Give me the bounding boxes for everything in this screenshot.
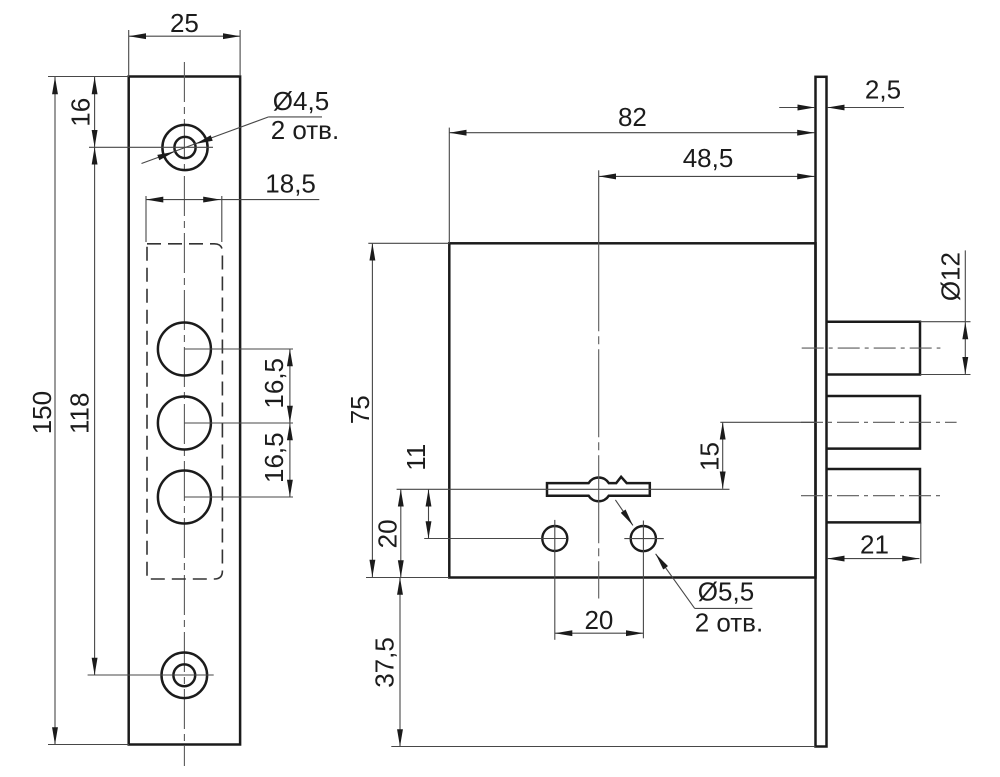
dimension 150 extension bottom (48, 744, 129, 746)
svg-text:Ø4,5: Ø4,5 (273, 86, 329, 116)
dimension 20 bottom line (555, 632, 643, 634)
faceplate bar (side view) (816, 77, 827, 747)
dimension 75 extension bottom (366, 577, 449, 579)
dimension 2,5 left arrow (779, 107, 815, 109)
svg-text:16,5: 16,5 (259, 432, 289, 483)
dimension 37,5 line (399, 578, 401, 747)
leader Ø4,5 arrow lower (157, 152, 174, 161)
dimension 2,5 right arrow (827, 107, 904, 109)
hole 3 center stub (184, 496, 293, 498)
top screw hole Ø4,5 (174, 137, 195, 158)
mounting holes horizontal centerline (424, 538, 567, 540)
bolt 1 centerline (802, 347, 941, 349)
dimension Ø12 line (964, 322, 966, 374)
bottom screw hole Ø4,5 (173, 664, 195, 686)
faceplate vertical centerline (183, 62, 185, 766)
svg-text:Ø5,5: Ø5,5 (698, 577, 754, 607)
dimension Ø12 extension top (920, 321, 971, 323)
deadbolt hole 3 (158, 471, 211, 524)
dimension 21 extension (920, 522, 922, 563)
mounting hole left Ø5,5 (542, 526, 567, 551)
bottom screw hole countersink (162, 653, 208, 699)
mounting hole right Ø5,5 (631, 526, 656, 551)
svg-text:18,5: 18,5 (265, 169, 316, 199)
svg-text:16,5: 16,5 (259, 358, 289, 409)
dimension 150 line (54, 77, 56, 745)
top screw hole countersink (162, 125, 207, 170)
right circle vertical centerline (642, 521, 644, 639)
svg-text:2,5: 2,5 (865, 75, 901, 105)
dimension 15 extension top (720, 421, 815, 423)
dimension Ø12 extension bottom (920, 374, 971, 376)
keyhole vertical centerline upper (598, 170, 600, 243)
dimension 18,5 line (146, 199, 221, 201)
dimension Ø12 overshoot (964, 250, 966, 322)
dimension 25 extension right (239, 30, 241, 76)
svg-text:Ø12: Ø12 (936, 252, 966, 301)
svg-text:2 отв.: 2 отв. (271, 115, 340, 145)
dimension 37,5 extension bottom (391, 746, 815, 748)
dimension 150 extension top (48, 76, 129, 78)
dimension 25 line (129, 35, 240, 37)
hidden lock body (dashed rounded rect) (147, 244, 222, 579)
svg-text:82: 82 (618, 102, 647, 132)
lock body outline (side view) (449, 243, 815, 577)
dimension 16,5 lower line (289, 423, 291, 497)
dimension 75 line (371, 243, 373, 577)
deadbolt hole 1 (158, 323, 211, 376)
svg-text:21: 21 (860, 530, 889, 560)
svg-text:20: 20 (584, 605, 613, 635)
svg-text:2 отв.: 2 отв. (695, 608, 764, 638)
left circle vertical centerline (554, 520, 556, 640)
dimension 75 extension top (368, 242, 449, 244)
keyhole horizontal centerline (397, 488, 730, 490)
dimension 18,5 line tail (221, 199, 320, 201)
dimension 18,5 extension left (145, 196, 147, 242)
leader Ø4,5 arrow upper (195, 135, 212, 144)
bolt 3 (827, 469, 921, 522)
dimension 25 extension left (128, 30, 130, 76)
svg-text:25: 25 (170, 8, 199, 38)
dimension 16 line (94, 77, 96, 147)
dimension 11 line (428, 489, 430, 538)
bolt 1 (827, 322, 921, 375)
top hole horizontal centerline (89, 146, 213, 148)
dimension 16,5 upper line (289, 349, 291, 423)
leader Ø4,5 shelf (269, 116, 322, 118)
svg-text:75: 75 (345, 395, 375, 424)
svg-text:48,5: 48,5 (683, 143, 734, 173)
svg-text:15: 15 (695, 442, 725, 471)
svg-text:118: 118 (64, 393, 94, 434)
svg-text:37,5: 37,5 (370, 637, 400, 688)
faceplate outline (front view) (129, 77, 240, 745)
right circle crosshair horizontal (624, 538, 664, 540)
dimension 20 left line (400, 489, 402, 577)
dimension 15 line (722, 422, 724, 489)
keyhole lever window (547, 477, 650, 502)
bolt 2 (827, 396, 921, 449)
bolt 3 centerline (801, 495, 941, 497)
dimension 18,5 extension right (221, 196, 223, 242)
dimension 82 line (449, 132, 814, 134)
dimension 21 line (827, 558, 919, 560)
leader Ø5,5 lower segment (656, 554, 695, 609)
svg-text:11: 11 (401, 444, 431, 471)
svg-text:16: 16 (65, 98, 95, 127)
leader Ø4,5 diagonal (142, 117, 269, 164)
leader Ø5,5 upper segment (615, 500, 633, 526)
hole 2 center stub (184, 422, 293, 424)
deadbolt hole 2 (158, 397, 211, 450)
keyhole vertical centerline body (598, 243, 600, 598)
dimension 118 line (94, 147, 96, 675)
svg-text:150: 150 (27, 391, 57, 434)
bolt 2 centerline (801, 421, 957, 423)
leader Ø5,5 shelf (695, 607, 753, 609)
svg-text:20: 20 (372, 519, 402, 548)
dimension 82 extension (448, 128, 450, 244)
hole 1 center stub (184, 348, 293, 350)
bottom hole horizontal centerline (88, 674, 214, 676)
dimension 48,5 line (599, 175, 815, 177)
